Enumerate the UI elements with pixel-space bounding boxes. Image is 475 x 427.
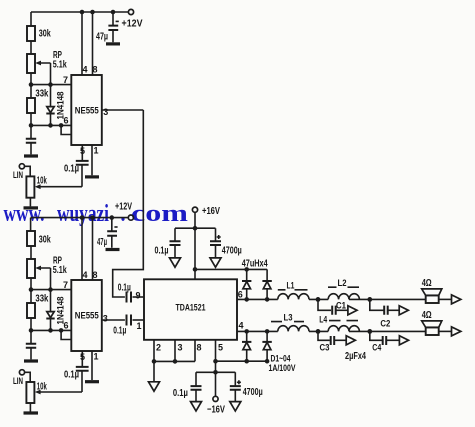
ground bar (47u mid) (106, 248, 120, 251)
resistor 30k (2) (27, 231, 51, 246)
capacitor C2 (370, 299, 399, 328)
capacitor 47u (mid) (97, 218, 118, 248)
svg-text:L1: L1 (287, 281, 295, 291)
svg-text:8: 8 (93, 270, 98, 280)
wire (30, 278, 32, 290)
svg-text:7: 7 (63, 75, 68, 85)
svg-text:0.1µ: 0.1µ (173, 388, 188, 399)
wire pin2 link (2) (61, 330, 71, 339)
node A wire (309, 297, 328, 302)
svg-text:4700µ: 4700µ (243, 387, 263, 398)
node row pin7 (2) (29, 280, 72, 292)
wire pin6 out (237, 290, 278, 302)
ground (speaker bottom) (452, 327, 461, 336)
svg-text:3: 3 (178, 343, 183, 353)
svg-text:TDA1521: TDA1521 (176, 303, 207, 314)
wire +12V rail 1 (31, 10, 129, 15)
label D1~04 (269, 354, 296, 374)
svg-text:C2: C2 (380, 319, 390, 329)
wire TDA top supply pin (193, 267, 198, 279)
svg-text:6: 6 (238, 290, 243, 300)
svg-text:5.1k: 5.1k (53, 265, 67, 276)
wire pin8 (1) (93, 12, 98, 75)
potentiometer 10k (1) (26, 165, 82, 207)
svg-text:0.1µ: 0.1µ (118, 283, 131, 294)
op-amp U2 NE555 (2) (71, 280, 102, 351)
svg-text:0.1µ: 0.1µ (64, 164, 79, 175)
capacitor 0.1u pin5 (2) (64, 351, 89, 381)
svg-text:4Ω: 4Ω (422, 310, 432, 321)
svg-text:NE555: NE555 (75, 106, 100, 117)
svg-text:5.1k: 5.1k (53, 60, 67, 71)
svg-text:wuyazi: wuyazi (57, 201, 109, 227)
svg-text:8: 8 (197, 343, 202, 353)
ground (4700u +16V) (210, 258, 221, 267)
wire chain2 top (30, 218, 32, 231)
ground (C2) (399, 306, 408, 315)
terminal -16V (207, 396, 225, 415)
svg-text:47µ: 47µ (96, 32, 108, 43)
ground (speaker top) (452, 295, 461, 304)
svg-text:LIN: LIN (13, 376, 23, 386)
wire (30, 41, 32, 54)
svg-text:+12V: +12V (115, 202, 132, 213)
svg-text:1A/100V: 1A/100V (269, 363, 296, 373)
terminal +12V (top) (122, 9, 143, 29)
ground (0.1u -16V) (191, 402, 202, 411)
svg-text:7: 7 (63, 280, 68, 290)
ground (C3) (346, 336, 355, 345)
svg-text:L4: L4 (319, 315, 327, 325)
resistor 30k (1) (27, 26, 51, 41)
svg-text:NE555: NE555 (75, 311, 100, 322)
capacitor (chain1 bottom) (26, 125, 36, 154)
capacitor 0.1u coupling (pin9) (118, 283, 144, 303)
svg-text:L3: L3 (284, 313, 293, 323)
svg-text:4: 4 (239, 321, 244, 331)
svg-text:+12V: +12V (122, 19, 143, 30)
capacitor C4 (370, 331, 399, 352)
terminal LIN (2) (13, 370, 30, 386)
svg-text:0.1µ: 0.1µ (64, 370, 79, 381)
ground bar (24, 154, 38, 157)
svg-text:C1: C1 (336, 301, 346, 311)
wire -16V branch (196, 371, 235, 373)
svg-text:L2: L2 (338, 278, 347, 288)
wire pin4 (1) (82, 12, 88, 75)
svg-text:4: 4 (83, 65, 88, 75)
svg-text:9: 9 (136, 291, 141, 301)
wire +16V feed (175, 212, 216, 269)
svg-text:3: 3 (103, 107, 108, 117)
svg-text:+16V: +16V (202, 206, 220, 217)
svg-text:6: 6 (64, 321, 69, 331)
wire pin1 ground (1) (92, 145, 99, 175)
capacitor 0.1u (-16V) (173, 372, 202, 401)
svg-text:3: 3 (103, 314, 108, 324)
wire pin3 out (1) (102, 107, 144, 117)
speaker 4ohm (bottom) (422, 310, 452, 335)
speaker 4ohm (top) (422, 278, 452, 303)
svg-text:D1~04: D1~04 (271, 354, 291, 364)
potentiometer RP 5.1k (2) (27, 256, 67, 290)
svg-text:30k: 30k (39, 235, 51, 246)
svg-text:com: com (131, 201, 188, 227)
capacitor 4700u (-16V) (230, 372, 263, 401)
svg-text:8: 8 (93, 65, 98, 75)
ground (C4) (399, 336, 408, 345)
resistor 33k (2) (27, 290, 49, 331)
wire pin2 link (1) (61, 125, 71, 134)
node row pin6 (2) (29, 321, 72, 333)
ground bar (pot2) (24, 411, 39, 414)
inductor L1 (278, 281, 309, 300)
capacitor 0.1u (+16V) (155, 228, 181, 258)
svg-text:C4: C4 (372, 343, 381, 353)
capacitor 47u (top) (96, 12, 119, 43)
potentiometer RP 5.1k (1) (27, 50, 67, 85)
svg-text:LIN: LIN (13, 170, 23, 180)
svg-text:www.: www. (4, 201, 45, 227)
inductor L3 (271, 313, 309, 332)
terminal +16V (192, 206, 220, 217)
wire link 555-1 pin3 to TDA pin9 (113, 110, 144, 297)
terminal LIN (1) (13, 164, 30, 180)
ground bar (24, 359, 38, 362)
svg-text:−16V: −16V (207, 405, 225, 416)
diode D2 (262, 269, 271, 299)
svg-text:1: 1 (94, 352, 99, 362)
wire (30, 73, 32, 85)
ground bar (47u top) (106, 42, 120, 45)
diode 1N4148 (2) (46, 290, 65, 331)
capacitor 0.1u coupling (pin1) (102, 314, 144, 337)
svg-text:5: 5 (80, 352, 85, 362)
wire chain1 top (30, 12, 32, 26)
capacitor (chain2 bottom) (26, 330, 36, 359)
ground (0.1u +16V) (170, 258, 181, 267)
node row pin6 (1) (29, 116, 72, 128)
node row pin7 (1) (29, 75, 72, 87)
wire +12V rail 2 (31, 215, 129, 220)
wire pin4 (2) (82, 218, 88, 280)
wire TDA pin2 (152, 340, 161, 382)
svg-text:4700µ: 4700µ (222, 246, 242, 257)
node D wire (349, 329, 426, 334)
svg-text:33k: 33k (35, 89, 48, 100)
terminal +12V (mid) (115, 202, 133, 221)
svg-text:5: 5 (218, 343, 223, 353)
svg-text:1: 1 (137, 321, 142, 331)
svg-text:4Ω: 4Ω (422, 278, 432, 289)
ground bar (pot1) (24, 206, 39, 209)
wire (30, 246, 32, 259)
capacitor C1 (318, 299, 348, 314)
wire pin5 to diodes (216, 359, 270, 364)
svg-text:0.1µ: 0.1µ (113, 326, 126, 337)
wire TDA pin8 (154, 340, 202, 362)
svg-text:1: 1 (94, 146, 99, 156)
capacitor 0.1u pin5 (1) (64, 145, 89, 175)
svg-text:33k: 33k (35, 294, 48, 305)
wire pin4 out (237, 321, 278, 334)
op-amp U1 NE555 (1) (71, 75, 102, 145)
capacitor C3 (318, 331, 346, 352)
svg-text:5: 5 (80, 146, 85, 156)
wire TDA pin3 (173, 340, 183, 364)
wire pin1 ground (2) (92, 351, 99, 380)
svg-text:2µFx4: 2µFx4 (345, 351, 366, 362)
diode D1 (242, 269, 251, 299)
ground (pin2) (149, 382, 160, 391)
svg-text:6: 6 (64, 116, 69, 126)
node C wire (309, 329, 328, 334)
ground bar (pin1-2) (85, 380, 99, 383)
wire pin8 (2) (93, 218, 98, 280)
wire +16 rail to diodes (195, 259, 268, 272)
svg-text:2: 2 (156, 343, 161, 353)
ground bar (pin1-1) (85, 175, 99, 178)
svg-text:10k: 10k (37, 176, 47, 187)
ground (4700u -16V) (230, 402, 241, 411)
svg-text:C3: C3 (320, 343, 330, 353)
svg-text:47uHx4: 47uHx4 (242, 259, 268, 270)
node B wire (349, 297, 426, 302)
svg-text:47µ: 47µ (97, 237, 107, 248)
diode 1N4148 (1) (46, 85, 65, 126)
resistor 33k (1) (27, 85, 49, 126)
wire TDA pin5 (213, 340, 223, 397)
inductor L4 (319, 315, 359, 332)
svg-text:0.1µ: 0.1µ (155, 246, 169, 257)
potentiometer 10k (2) (26, 371, 82, 412)
svg-text:30k: 30k (39, 29, 51, 40)
op-amp U3 TDA1521 (144, 279, 237, 340)
diode D3 (242, 331, 251, 361)
inductor L2 (328, 278, 359, 299)
diode D4 (262, 331, 271, 361)
ground (C1) (348, 306, 357, 315)
capacitor 4700u (+16V) (210, 228, 242, 258)
svg-text:4: 4 (83, 270, 88, 280)
